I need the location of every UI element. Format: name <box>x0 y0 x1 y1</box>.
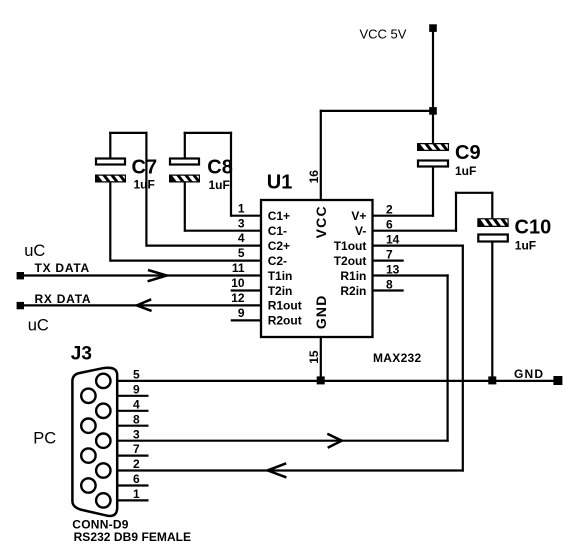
svg-text:uC: uC <box>24 242 45 260</box>
svg-text:1uF: 1uF <box>515 239 536 253</box>
svg-text:C8: C8 <box>207 156 233 178</box>
svg-text:7: 7 <box>386 247 393 261</box>
svg-text:C1-: C1- <box>268 224 287 238</box>
svg-text:J3: J3 <box>71 344 92 365</box>
svg-text:8: 8 <box>386 277 393 291</box>
svg-text:R2out: R2out <box>268 314 302 328</box>
svg-text:4: 4 <box>238 231 245 245</box>
svg-text:1: 1 <box>238 201 245 215</box>
svg-text:MAX232: MAX232 <box>373 351 422 365</box>
svg-text:7: 7 <box>133 442 140 456</box>
svg-text:4: 4 <box>133 397 140 411</box>
svg-text:9: 9 <box>238 306 245 320</box>
svg-text:8: 8 <box>133 412 140 426</box>
svg-text:16: 16 <box>307 170 321 184</box>
svg-text:T1in: T1in <box>268 269 293 283</box>
svg-text:V-: V- <box>355 224 366 238</box>
svg-text:9: 9 <box>133 382 140 396</box>
svg-text:uC: uC <box>28 316 49 334</box>
svg-text:T2out: T2out <box>334 254 367 268</box>
svg-text:1uF: 1uF <box>134 178 155 192</box>
svg-text:C10: C10 <box>515 216 552 238</box>
svg-text:R2in: R2in <box>340 284 366 298</box>
svg-text:11: 11 <box>232 261 245 275</box>
svg-text:R1in: R1in <box>340 269 366 283</box>
svg-text:C7: C7 <box>132 156 158 178</box>
svg-text:C9: C9 <box>455 142 481 164</box>
svg-text:PC: PC <box>33 430 56 448</box>
svg-text:3: 3 <box>133 427 140 441</box>
svg-text:RS232 DB9 FEMALE: RS232 DB9 FEMALE <box>74 530 192 544</box>
svg-text:2: 2 <box>133 457 140 471</box>
svg-text:5: 5 <box>133 368 140 382</box>
svg-text:C1+: C1+ <box>268 209 290 223</box>
svg-text:5: 5 <box>238 246 245 260</box>
svg-text:GND: GND <box>514 367 544 381</box>
svg-text:GND: GND <box>313 294 329 329</box>
svg-text:6: 6 <box>133 472 140 486</box>
svg-text:10: 10 <box>231 276 245 290</box>
svg-text:T1out: T1out <box>334 239 367 253</box>
svg-text:V+: V+ <box>351 209 366 223</box>
svg-text:VCC 5V: VCC 5V <box>360 27 407 42</box>
svg-text:2: 2 <box>386 203 393 217</box>
svg-text:T2in: T2in <box>268 284 293 298</box>
svg-text:14: 14 <box>386 232 400 246</box>
svg-text:6: 6 <box>386 218 393 232</box>
svg-text:13: 13 <box>386 262 400 276</box>
svg-text:TX DATA: TX DATA <box>35 261 90 275</box>
svg-text:U1: U1 <box>267 172 293 194</box>
svg-text:1uF: 1uF <box>455 164 476 178</box>
svg-text:3: 3 <box>238 216 245 230</box>
svg-text:15: 15 <box>307 350 321 364</box>
svg-text:1: 1 <box>133 487 140 501</box>
svg-text:C2+: C2+ <box>268 239 290 253</box>
svg-text:R1out: R1out <box>268 299 302 313</box>
svg-text:C2-: C2- <box>268 254 287 268</box>
svg-text:RX DATA: RX DATA <box>35 292 92 306</box>
svg-text:12: 12 <box>231 291 245 305</box>
svg-text:1uF: 1uF <box>209 178 230 192</box>
svg-text:VCC: VCC <box>313 205 329 238</box>
